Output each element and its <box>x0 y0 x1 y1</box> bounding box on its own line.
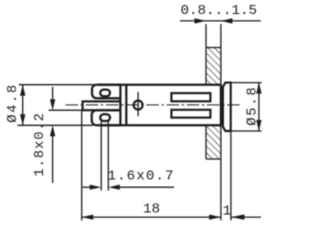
dimension 1.6 right arrow <box>108 185 120 190</box>
dimension 0.8...1.5 line <box>180 20 261 22</box>
dimension d5.8 top arrow <box>256 83 261 94</box>
svg-text:1: 1 <box>223 203 232 219</box>
dimension 0.8...1.5 right arrow <box>221 18 233 23</box>
body top edge <box>99 84 221 86</box>
dimension d5.8 bottom arrow <box>256 120 261 131</box>
svg-text:Ø5.8: Ø5.8 <box>244 87 260 126</box>
main centerline <box>66 104 240 106</box>
front bezel head <box>223 83 231 131</box>
side hole vertical center mark <box>137 92 139 116</box>
body right end face at panel <box>220 85 222 126</box>
panel hatch lower section <box>206 126 220 159</box>
dimension d5.8 top extension <box>231 82 262 84</box>
panel left face line <box>205 24 207 159</box>
upper solder lug <box>92 85 120 99</box>
svg-text:0.8...1.5: 0.8...1.5 <box>181 3 258 19</box>
dimension 1 right extension <box>230 132 232 221</box>
lug holder flange line 2 <box>125 85 127 126</box>
dimension d5.8 line <box>258 83 260 131</box>
upper snap slot <box>171 93 210 101</box>
dimension d4.8 top arrow <box>20 85 25 96</box>
dimension 1.6 left tail <box>83 186 91 188</box>
dimension 18 right arrow <box>209 215 221 220</box>
dimension 1.6 left extension <box>100 121 102 191</box>
dimension d4.8 line <box>22 85 24 126</box>
dimension 1 tail line <box>231 216 261 218</box>
dimension 1.8 top extension <box>49 109 83 111</box>
dimension d5.8 bottom extension <box>231 130 262 132</box>
dimension 1 right arrow <box>231 214 245 219</box>
dimension 18 left extension <box>81 111 83 220</box>
svg-text:Ø4.8: Ø4.8 <box>5 85 21 123</box>
svg-text:18: 18 <box>143 202 160 218</box>
body bottom edge <box>100 124 221 126</box>
dimension d4.8 / 1.8 bottom extension <box>18 124 94 126</box>
side hole on barrel <box>134 101 143 110</box>
dimension 1.6 right extension <box>107 121 109 191</box>
lower solder lug <box>92 110 121 125</box>
panel right face line <box>220 24 222 220</box>
lower lug hole 1.6x0.7 <box>100 114 110 121</box>
panel top cap <box>206 47 221 49</box>
upper lug hole 1.6x0.7 <box>100 90 110 97</box>
dimension 1.8 lower leader <box>52 136 54 183</box>
dimension 18 left arrow <box>82 215 94 220</box>
dimension 1.8 up arrow <box>50 125 55 136</box>
lug holder flange line 1 <box>119 85 121 126</box>
dimension 1.8 upper leader <box>52 87 54 100</box>
lower snap slot <box>171 110 210 118</box>
dimension d4.8 bottom arrow <box>20 114 25 125</box>
dimension 1.6 left arrow <box>90 185 102 190</box>
svg-text:1.8x0.2: 1.8x0.2 <box>33 113 48 177</box>
dimension d4.8 top extension <box>19 84 98 86</box>
panel hatch upper section <box>206 48 220 84</box>
dimension 0.8...1.5 left arrow <box>195 18 207 23</box>
dimension 18 line <box>82 216 221 218</box>
dimension 1.8 down arrow <box>50 99 55 110</box>
svg-text:1.6x0.7: 1.6x0.7 <box>108 168 174 184</box>
center contact strip <box>83 101 121 110</box>
panel bottom cap <box>206 158 221 160</box>
dimension 1.6 right tail under text <box>120 186 174 188</box>
